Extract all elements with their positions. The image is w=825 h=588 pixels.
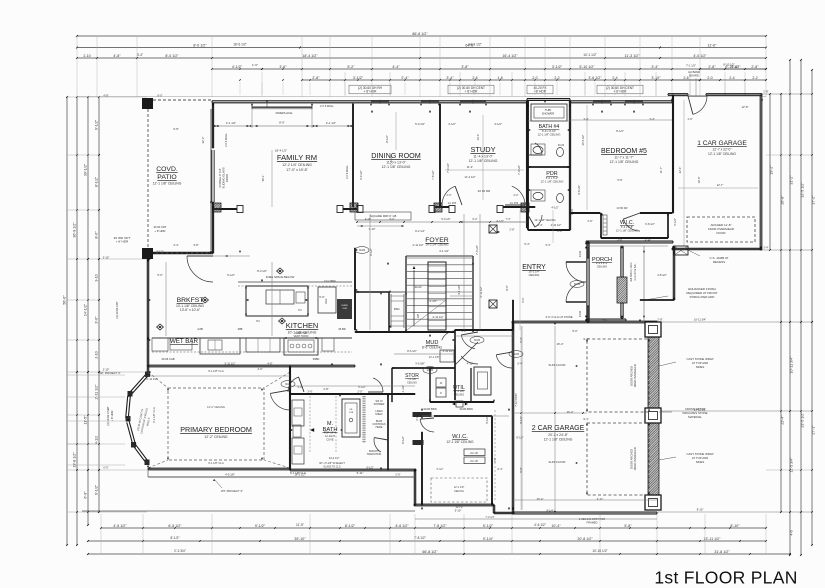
svg-text:4'-10": 4'-10" (365, 218, 371, 221)
dining-study wall (439, 104, 441, 207)
svg-text:2-0: 2-0 (707, 76, 712, 80)
svg-text:(4) 30-60 CSMT: (4) 30-60 CSMT (106, 406, 110, 426)
svg-text:3'-6": 3'-6" (297, 385, 302, 389)
furn closet dark box (337, 299, 352, 319)
svg-text:6'-2": 6'-2" (473, 218, 478, 221)
svg-text:2 X 6 WALL: 2 X 6 WALL (320, 104, 334, 108)
svg-text:56'-6": 56'-6" (63, 295, 67, 305)
bath4 sink (533, 146, 543, 153)
bedroom east wall (289, 366, 291, 470)
svg-text:12'-1 1/8" CEILING: 12'-1 1/8" CEILING (610, 160, 639, 164)
svg-text:4'-1 1/2": 4'-1 1/2" (439, 249, 449, 253)
garage2 overhead door 1 (587, 339, 649, 412)
porch east pier wall lower (620, 303, 622, 318)
svg-text:30-80: 30-80 (574, 283, 581, 286)
svg-text:16'-4": 16'-4" (556, 342, 563, 346)
patio posts (142, 98, 153, 109)
svg-text:6'-1/2": 6'-1/2" (401, 436, 405, 444)
svg-text:8'-0": 8'-0" (95, 231, 99, 239)
svg-text:12'-1 1/8" CEILING: 12'-1 1/8" CEILING (616, 228, 638, 232)
svg-text:6'-2 x 3'-8": 6'-2 x 3'-8" (621, 225, 633, 229)
pantry shelves (391, 295, 404, 297)
svg-text:DOOR: DOOR (225, 174, 229, 182)
svg-text:3-10: 3-10 (95, 274, 99, 281)
kitchen north counter dashed (238, 281, 352, 283)
svg-text:CEILING: CEILING (454, 392, 464, 396)
kitchen south wall (148, 364, 355, 366)
svg-text:36BD: 36BD (313, 357, 320, 361)
garage1 overhead door dashed (687, 217, 755, 242)
dim right col1 (769, 94, 771, 250)
svg-text:9'-1/2": 9'-1/2" (255, 524, 266, 528)
svg-text:4-1/2: 4-1/2 (95, 436, 99, 444)
util chase wall (470, 368, 472, 402)
svg-text:2'-10 1/2": 2'-10 1/2" (551, 224, 562, 227)
svg-text:5'-9 1/2": 5'-9 1/2" (415, 122, 425, 126)
svg-text:6'-9": 6'-9" (84, 491, 88, 499)
svg-text:10'-4": 10'-4" (551, 524, 561, 528)
wic shelving (464, 449, 485, 456)
svg-text:7'-0 1/4": 7'-0 1/4" (485, 516, 494, 519)
study interior dims (482, 115, 484, 200)
svg-text:5'-1/2": 5'-1/2" (366, 466, 373, 470)
svg-text:13'-11 1/2": 13'-11 1/2" (694, 408, 706, 412)
svg-text:66'-8 1/2": 66'-8 1/2" (422, 550, 438, 554)
svg-text:4'-11 1/2": 4'-11 1/2" (432, 315, 443, 319)
porch hatched pier (591, 277, 655, 303)
svg-text:7'-1 1/2": 7'-1 1/2" (686, 64, 696, 68)
svg-text:2'-8": 2'-8" (557, 229, 562, 233)
svg-text:10'-11 3/4": 10'-11 3/4" (790, 356, 794, 374)
svg-text:30'-1/2": 30'-1/2" (84, 163, 88, 176)
svg-text:SIDES: SIDES (696, 365, 705, 369)
svg-text:2-6: 2-6 (683, 76, 688, 80)
hatched wall piers south wall (341, 203, 368, 212)
svg-text:10 80: 10 80 (571, 208, 574, 215)
svg-text:9'-1/4": 9'-1/4" (483, 537, 494, 541)
wet bar sink cab (200, 338, 240, 354)
svg-text:4'-6": 4'-6" (257, 367, 262, 371)
svg-text:2'-10": 2'-10" (645, 238, 652, 242)
util opening arrows (452, 403, 455, 406)
svg-text:12'-1 1/8" CEILING: 12'-1 1/8" CEILING (538, 132, 561, 136)
left col connectors (67, 154, 99, 156)
svg-text:19'-2 1/4" CEILING: 19'-2 1/4" CEILING (426, 243, 449, 247)
svg-text:9'-1/4": 9'-1/4" (546, 509, 553, 513)
dim left col2 (76, 97, 78, 545)
tray ceiling dashed (168, 388, 264, 460)
svg-text:WET BAR: WET BAR (170, 338, 199, 345)
svg-text:4x6 BRICK JACK: 4x6 BRICK JACK (630, 262, 633, 282)
porch east dim line (643, 246, 645, 322)
svg-text:4'-6 1/2": 4'-6 1/2" (395, 524, 409, 528)
svg-text:1'-6": 1'-6" (252, 63, 258, 67)
svg-text:37'-2": 37'-2" (812, 195, 816, 205)
porch west wall (586, 242, 588, 322)
garage1 left wall (672, 95, 674, 213)
bay ext lines (67, 374, 125, 376)
svg-text:2'-2 3/4": 2'-2 3/4" (174, 549, 186, 553)
svg-text:5'-10 1/2": 5'-10 1/2" (579, 65, 595, 69)
svg-text:5'-9 1/2": 5'-9 1/2" (441, 218, 450, 221)
svg-text:8'-6 1/2": 8'-6 1/2" (407, 349, 417, 353)
porch east pier wall upper (620, 246, 622, 277)
kitchen slope diamonds (277, 268, 284, 274)
stairs nosing diagonal (407, 300, 446, 330)
svg-text:12'-1 1/8" CEILING: 12'-1 1/8" CEILING (469, 159, 498, 163)
pdr wc (557, 194, 564, 203)
svg-text:6'-1/2": 6'-1/2" (95, 484, 99, 495)
svg-text:30-60: 30-60 (558, 144, 565, 147)
svg-text:8'-0 1/2": 8'-0 1/2" (193, 43, 207, 47)
svg-text:4'-6": 4'-6" (267, 362, 272, 366)
svg-text:8'-6": 8'-6" (279, 121, 285, 125)
south jog wall (413, 470, 415, 505)
svg-text:RECESS: RECESS (713, 260, 725, 264)
svg-text:4'-1/2": 4'-1/2" (494, 122, 502, 126)
svg-text:8'-1/2": 8'-1/2" (616, 129, 624, 133)
garage2 overhead door 2 (587, 423, 649, 495)
svg-text:7'-8 1/2": 7'-8 1/2" (431, 170, 435, 180)
svg-text:12'-7 x 22'-0": 12'-7 x 22'-0" (712, 148, 732, 152)
svg-text:FURN: FURN (341, 305, 347, 307)
svg-text:4'-1 1/2": 4'-1 1/2" (226, 121, 236, 125)
svg-text:PATIO: PATIO (157, 174, 176, 181)
bath4 door (535, 143, 542, 155)
svg-text:30-80: 30-80 (474, 339, 481, 342)
svg-text:30-80 BRN: 30-80 BRN (423, 407, 436, 411)
kitchen island (246, 286, 308, 316)
svg-text:5'-1/2": 5'-1/2" (358, 385, 366, 389)
svg-text:2'-6": 2'-6" (395, 473, 400, 477)
svg-text:10'-5": 10'-5" (697, 177, 701, 184)
study french doors (442, 186, 455, 205)
svg-text:6'-1/2": 6'-1/2" (369, 248, 373, 256)
util door diagonal (455, 342, 478, 365)
svg-text:4'-0 1/2": 4'-0 1/2" (693, 54, 707, 58)
svg-text:30-80 BRN: 30-80 BRN (459, 407, 472, 411)
svg-text:9'-1/2": 9'-1/2" (156, 250, 163, 254)
svg-text:SLP& FLOOR: SLP& FLOOR (549, 460, 566, 464)
svg-text:PAN.: PAN. (394, 307, 401, 311)
svg-text:4'-10": 4'-10" (369, 227, 376, 231)
svg-text:WT. PROJECT 3": WT. PROJECT 3" (221, 489, 243, 493)
interior arrows scatter (213, 125, 215, 127)
svg-text:5'-11 1/2": 5'-11 1/2" (225, 362, 236, 366)
svg-text:2 X 6 WALL: 2 X 6 WALL (345, 165, 349, 179)
svg-text:39'-10": 39'-10" (294, 537, 306, 541)
svg-text:13'-11 1/2": 13'-11 1/2" (704, 537, 722, 541)
svg-text:30 60 CRT: 30 60 CRT (154, 225, 167, 229)
svg-text:2'-8": 2'-8" (751, 65, 759, 69)
svg-text:3'-4": 3'-4" (137, 53, 143, 57)
wic5 walls (600, 213, 602, 238)
dim left col3 (87, 97, 89, 525)
svg-text:2'-11 1/2": 2'-11 1/2" (146, 377, 157, 381)
svg-text:2-4: 2-4 (729, 76, 734, 80)
bath shower glass speckled strip (362, 396, 365, 443)
patio dashed outline (153, 99, 212, 101)
svg-text:12'-1 1/8" CEILING: 12'-1 1/8" CEILING (534, 219, 555, 222)
svg-text:+ 8' HDR: + 8' HDR (110, 411, 114, 422)
svg-text:4'-11 1/2": 4'-11 1/2" (443, 349, 454, 353)
family centerline + rotated dim (271, 150, 273, 207)
svg-text:(3) 30 60 CRT: (3) 30 60 CRT (115, 301, 119, 318)
garage2 dims (554, 326, 556, 510)
bedroom door (270, 394, 290, 411)
svg-text:17'-0" x 19'-8": 17'-0" x 19'-8" (286, 168, 308, 172)
svg-text:12'-1 1/8": 12'-1 1/8" (454, 486, 465, 489)
svg-text:9'-6": 9'-6" (494, 457, 497, 462)
svg-text:2 CLG HT STONE: 2 CLG HT STONE (551, 315, 573, 319)
svg-text:12'-2 1/4" CEILING: 12'-2 1/4" CEILING (282, 163, 312, 167)
svg-text:8'-0 1/2": 8'-0 1/2" (165, 54, 179, 58)
svg-text:3'-0": 3'-0" (545, 315, 550, 319)
svg-text:2'-6": 2'-6" (587, 219, 592, 223)
svg-text:4'-1 1/2": 4'-1 1/2" (326, 121, 336, 125)
svg-text:5'-4": 5'-4" (524, 242, 529, 246)
svg-text:3'-4": 3'-4" (763, 246, 768, 250)
dim left col4 (98, 97, 100, 512)
svg-text:27'-1": 27'-1" (812, 425, 816, 435)
bath freestanding tub (342, 399, 360, 437)
svg-text:CEILING: CEILING (597, 264, 607, 268)
bath south wall (290, 468, 416, 470)
svg-text:9'-1/2": 9'-1/2" (95, 119, 99, 130)
svg-text:1-8: 1-8 (497, 76, 502, 80)
svg-text:30'-5 1/2": 30'-5 1/2" (581, 134, 585, 145)
porch north wall (586, 240, 673, 242)
svg-text:4'-11 1/2": 4'-11 1/2" (479, 286, 483, 297)
svg-text:4'-1/2": 4'-1/2" (448, 122, 456, 126)
svg-text:8'-10": 8'-10" (697, 508, 704, 512)
svg-text:20'-2 x 24'-8": 20'-2 x 24'-8" (548, 433, 568, 437)
svg-text:WT. PROJECT 3": WT. PROJECT 3" (99, 371, 120, 375)
svg-text:31'-2": 31'-2" (790, 175, 794, 185)
svg-text:2'-2": 2'-2" (514, 194, 519, 197)
svg-text:8'-1/2": 8'-1/2" (519, 416, 523, 424)
svg-text:8'-1/2": 8'-1/2" (345, 524, 356, 528)
bedroom5 south wall (570, 212, 600, 214)
svg-text:22'-0": 22'-0" (678, 167, 682, 174)
patio slab lines (415, 518, 657, 520)
svg-text:5'-9 1/2": 5'-9 1/2" (359, 170, 363, 180)
wic5 shelves (603, 215, 607, 235)
svg-text:5'-1/2": 5'-1/2" (483, 524, 494, 528)
garage1 top wall veneer ticks (707, 93, 709, 96)
svg-text:16030 OVERHEAD: 16030 OVERHEAD (633, 364, 637, 387)
svg-text:12'-2" CEILING: 12'-2" CEILING (207, 405, 225, 409)
svg-text:1 CAR GARAGE: 1 CAR GARAGE (697, 140, 747, 147)
svg-text:3'-8": 3'-8" (617, 238, 622, 242)
svg-text:DINING ROOM: DINING ROOM (371, 151, 421, 160)
pdr door (535, 215, 542, 227)
fireplace (252, 106, 312, 108)
svg-text:36 BD: 36 BD (338, 327, 346, 331)
south counters (152, 337, 352, 339)
dim right col5 (811, 70, 813, 545)
svg-text:8'-10": 8'-10" (730, 524, 740, 528)
2 car garage outline (512, 320, 657, 322)
svg-text:DOOR ARCHED: DOOR ARCHED (630, 366, 634, 386)
wic walls (421, 432, 423, 505)
svg-text:86'-8 1/2": 86'-8 1/2" (412, 32, 428, 36)
bath4 pdr column walls (568, 101, 570, 230)
svg-text:9'-0": 9'-0" (521, 297, 525, 302)
svg-text:16030 OVERHEAD: 16030 OVERHEAD (633, 447, 637, 470)
family west wall + sliding door (211, 103, 213, 148)
wic dark jamb walls (413, 412, 432, 417)
svg-text:11'-3 1/2": 11'-3 1/2" (625, 54, 641, 58)
stair center rail (428, 262, 446, 330)
svg-text:31'-8 1/2": 31'-8 1/2" (714, 550, 730, 554)
svg-text:40-60: 40-60 (415, 285, 422, 289)
svg-text:7'-0 1/2": 7'-0 1/2" (517, 165, 521, 175)
svg-text:10'-10 1/2": 10'-10 1/2" (592, 549, 607, 553)
svg-text:5'-8": 5'-8" (624, 524, 632, 528)
svg-text:40 60 DR: 40 60 DR (478, 189, 492, 193)
svg-text:8'-1/2": 8'-1/2" (516, 436, 523, 440)
garage2 hatched east wall (464, 326, 825, 510)
svg-text:COVE: COVE (326, 437, 334, 441)
svg-text:36'-9 1/2": 36'-9 1/2" (73, 222, 77, 238)
hall to bath door arcs (288, 377, 299, 392)
extension lines bottom verticals (100, 514, 102, 554)
bath vanities (292, 400, 304, 426)
svg-text:KITCHEN: KITCHEN (286, 321, 318, 330)
svg-text:TRANSITION: TRANSITION (367, 453, 382, 456)
svg-text:12'-1 1/8" CEILING: 12'-1 1/8" CEILING (541, 179, 564, 183)
square brd label (355, 212, 411, 220)
svg-text:CUB: CUB (342, 308, 347, 310)
brkfst west wall (146, 259, 148, 372)
svg-text:12'-1 1/8" CEILING: 12'-1 1/8" CEILING (446, 440, 474, 444)
south wall below WIC (414, 503, 494, 505)
svg-text:3-0 BAND: 3-0 BAND (688, 70, 700, 74)
bath hall door (374, 438, 381, 453)
svg-text:9'-1 1/8" CLG: 9'-1 1/8" CLG (152, 407, 156, 423)
svg-text:SHOWER: SHOWER (374, 403, 385, 406)
bath east wall (387, 394, 389, 470)
svg-text:2 X 6 WALL: 2 X 6 WALL (224, 133, 228, 147)
svg-text:12'-8": 12'-8" (742, 105, 749, 109)
svg-text:4'-11": 4'-11" (467, 362, 473, 366)
svg-text:26'-8": 26'-8" (781, 195, 785, 205)
svg-text:3'-8": 3'-8" (461, 65, 469, 69)
svg-text:UP: UP (416, 314, 420, 318)
svg-text:5'-2": 5'-2" (390, 218, 395, 221)
svg-text:5'-4": 5'-4" (517, 362, 522, 366)
svg-text:1st FLOOR PLAN: 1st FLOOR PLAN (654, 568, 797, 588)
svg-text:BEDROOM #5: BEDROOM #5 (601, 148, 647, 155)
svg-text:12'-1 1/8" CEILING: 12'-1 1/8" CEILING (708, 152, 736, 156)
dim bottom row1 (101, 527, 766, 529)
porch south wall (586, 318, 626, 320)
svg-text:5'-4": 5'-4" (546, 244, 551, 247)
svg-text:10'-1 1/2": 10'-1 1/2" (583, 53, 596, 57)
oval door tags (355, 247, 369, 254)
left col extra ticks (76, 154, 78, 156)
svg-text:5'-1/2": 5'-1/2" (437, 468, 444, 471)
svg-text:2'-8": 2'-8" (763, 90, 768, 94)
svg-text:3'-6": 3'-6" (95, 316, 99, 324)
svg-text:P4: P4 (298, 308, 302, 312)
svg-text:12'-1 1/8" CEILING: 12'-1 1/8" CEILING (544, 438, 573, 442)
svg-text:4'-1 1/2": 4'-1 1/2" (457, 285, 461, 295)
svg-text:6'-8 1/2": 6'-8 1/2" (645, 222, 655, 226)
svg-text:30-80: 30-80 (359, 249, 366, 252)
svg-text:4'-8": 4'-8" (113, 54, 121, 58)
svg-text:9'-0 x 8'-1": 9'-0 x 8'-1" (596, 261, 608, 265)
svg-text:9'-4": 9'-4" (583, 337, 588, 341)
svg-text:19'-2": 19'-2" (770, 165, 774, 175)
svg-text:12'-1 1/8": 12'-1 1/8" (429, 356, 440, 359)
svg-text:30-80: 30-80 (579, 250, 582, 257)
top wall windows (371, 100, 389, 102)
bay window angled walls (129, 374, 146, 393)
bath north wall (290, 393, 415, 395)
svg-text:+ 8' HDR: + 8' HDR (364, 90, 378, 94)
garage2 pilasters (645, 322, 661, 337)
svg-text:12'-7": 12'-7" (717, 183, 724, 187)
svg-text:STUDY: STUDY (470, 145, 495, 154)
svg-text:FRAMED: FRAMED (587, 520, 598, 524)
svg-text:2'-8": 2'-8" (415, 415, 419, 420)
svg-text:3'-4": 3'-4" (649, 117, 654, 121)
study east wall (526, 101, 528, 228)
svg-text:PORCH PER ADD: PORCH PER ADD (690, 295, 716, 299)
svg-text:16'-4 1/2": 16'-4 1/2" (502, 54, 518, 58)
svg-text:BRKFST: BRKFST (177, 297, 204, 304)
svg-text:10'-11 3/4": 10'-11 3/4" (694, 318, 706, 322)
svg-text:CLG DP & BAL: CLG DP & BAL (634, 263, 637, 281)
dim right col4 (800, 60, 802, 555)
svg-text:12'-1 1/8" CEILING: 12'-1 1/8" CEILING (382, 165, 411, 169)
svg-text:2-4: 2-4 (612, 76, 617, 80)
svg-text:4'-5 1/8": 4'-5 1/8" (225, 473, 235, 477)
extension stubs top wall (261, 72, 263, 96)
stor walls (392, 367, 455, 369)
svg-text:24 x 36: 24 x 36 (470, 461, 478, 463)
dim top row4 (212, 68, 766, 70)
svg-text:4'-1/2": 4'-1/2" (496, 219, 504, 223)
svg-text:CLG BRK: CLG BRK (324, 279, 336, 283)
svg-text:2-2: 2-2 (554, 76, 559, 80)
svg-text:DOOR ARCHED: DOOR ARCHED (630, 449, 634, 469)
svg-text:4'-8 1/2": 4'-8 1/2" (657, 273, 667, 277)
window labels top (349, 85, 391, 94)
extension lines top verticals (76, 36, 78, 97)
svg-text:11'-6": 11'-6" (708, 43, 718, 47)
svg-text:TUB: TUB (349, 412, 354, 414)
pdr sink (533, 192, 543, 199)
svg-text:+ 8' HDR: + 8' HDR (465, 90, 479, 94)
svg-text:19'-2 1/4": 19'-2 1/4" (528, 270, 539, 274)
svg-text:11'-5": 11'-5" (84, 415, 88, 425)
right side tick rows (780, 93, 782, 95)
south wall family dining study (213, 208, 240, 210)
svg-text:32'-5 1/2": 32'-5 1/2" (801, 182, 805, 198)
svg-text:FIREPLACE: FIREPLACE (276, 111, 293, 115)
svg-text:COVD.: COVD. (156, 166, 178, 173)
entry south wall (455, 329, 513, 331)
svg-text:11'-7": 11'-7" (659, 167, 663, 174)
svg-text:4'-1/2": 4'-1/2" (232, 65, 243, 69)
wic ceiling dashed (431, 478, 487, 502)
svg-text:1'-6": 1'-6" (687, 117, 692, 121)
dining interior dims (395, 112, 397, 150)
foyer-entry columns (489, 225, 497, 233)
